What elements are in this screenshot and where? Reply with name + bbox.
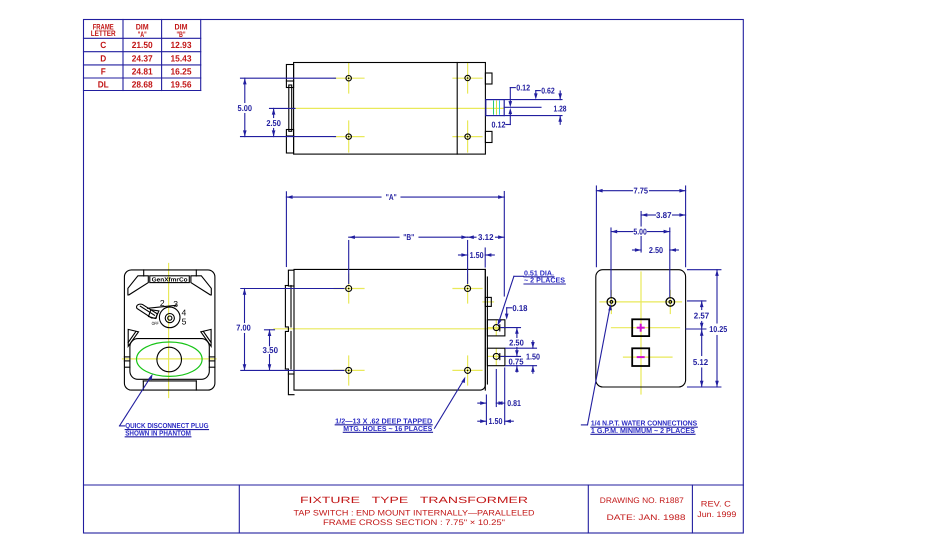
svg-text:24.81: 24.81 (132, 67, 153, 77)
svg-text:10.25: 10.25 (709, 324, 727, 334)
dimension B (front view hole span) (349, 232, 468, 284)
svg-text:5.00: 5.00 (633, 226, 647, 236)
svg-text:1.50: 1.50 (526, 351, 540, 361)
svg-text:DATE: JAN. 1988: DATE: JAN. 1988 (607, 513, 687, 522)
svg-text:SHOWN IN PHANTOM: SHOWN IN PHANTOM (125, 428, 191, 437)
table row D (100, 54, 191, 64)
svg-text:"A": "A" (386, 192, 397, 202)
table row DL (98, 80, 192, 90)
dimension 1.50 (lower tab height) (506, 341, 541, 374)
svg-text:2.50: 2.50 (649, 245, 663, 255)
top view: mounting holes (346, 75, 470, 139)
fixture view: mid-left gusset (128, 329, 138, 346)
top view: protrusion extension lines (504, 100, 562, 116)
top view: right side small tabs (485, 73, 492, 143)
svg-text:"A": "A" (138, 30, 147, 39)
dimension 0.18 (tab offset) (505, 303, 528, 320)
svg-text:2.50: 2.50 (266, 118, 281, 128)
front view: lower terminal tab with hole (487, 348, 505, 366)
fixture view: outer body (124, 270, 214, 390)
dimension 0.12 (top, lower) (492, 108, 513, 129)
note QUICK DISCONNECT PLUG SHOWN IN PHANTOM with leader (120, 374, 209, 438)
top view: left flange (286, 65, 293, 154)
front view: upper terminal tab with hole (487, 320, 505, 336)
title block divider lines (84, 485, 744, 533)
svg-text:0.81: 0.81 (507, 398, 521, 408)
end view: negative terminal (632, 348, 649, 366)
svg-text:3.50: 3.50 (263, 345, 279, 355)
svg-text:REV. C: REV. C (701, 500, 731, 509)
svg-text:3.87: 3.87 (656, 210, 672, 220)
svg-text:19.56: 19.56 (171, 80, 192, 90)
svg-text:0.75: 0.75 (509, 356, 524, 366)
svg-text:12.93: 12.93 (171, 40, 192, 50)
svg-text:"B": "B" (177, 30, 186, 39)
svg-text:3.12: 3.12 (478, 232, 494, 242)
svg-text:MTG. HOLES ~ 16 PLACES: MTG. HOLES ~ 16 PLACES (343, 424, 432, 433)
dimension A (front view overall width) (286, 192, 504, 297)
svg-text:0.62: 0.62 (541, 86, 555, 96)
fixture view: top band dividers (144, 270, 197, 276)
svg-text:LETTER: LETTER (91, 29, 116, 38)
title block text: drawing title (294, 495, 535, 527)
svg-text:1 G.P.M. MINIMUM ~ 2 PLACES: 1 G.P.M. MINIMUM ~ 2 PLACES (591, 426, 695, 435)
dimension 2.50 (top view left) (266, 108, 295, 136)
end view: body outline (596, 270, 686, 387)
svg-text:~ 2 PLACES: ~ 2 PLACES (524, 276, 565, 285)
svg-text:2: 2 (160, 298, 165, 308)
dimension 5.12 (positive terminal to bottom) (693, 329, 709, 387)
table row C (100, 40, 191, 50)
svg-text:OFF: OFF (152, 321, 159, 326)
dimension 1.50 (bottom right) (478, 416, 514, 426)
svg-text:1.28: 1.28 (554, 103, 567, 113)
svg-text:Jun. 1999: Jun. 1999 (697, 510, 737, 519)
dimension 0.81 (bottom right) (478, 368, 521, 425)
svg-text:F: F (101, 67, 106, 77)
svg-text:"B": "B" (403, 232, 414, 242)
fixture view: top-left corner gusset (128, 276, 148, 295)
svg-text:C: C (100, 40, 106, 50)
svg-text:24.37: 24.37 (132, 54, 153, 64)
svg-text:FRAME CROSS SECTION : 7.75" ×: FRAME CROSS SECTION : 7.75" × 10.25" (323, 518, 505, 527)
dimension 0.12 (top, upper) (509, 83, 531, 108)
svg-text:15.43: 15.43 (171, 54, 192, 64)
dimension 7.75 (end view overall width) (596, 186, 685, 267)
fixture view: lower compartment (124, 339, 214, 380)
dimension 5.00 (water hole spacing) (611, 226, 670, 296)
dimension 0.75 (hole to tab bottom) (509, 356, 524, 372)
svg-text:5.12: 5.12 (693, 357, 709, 367)
front view: body outline (294, 269, 485, 390)
front view: yellow centerlines (274, 274, 506, 385)
svg-text:21.50: 21.50 (132, 40, 153, 50)
svg-text:3: 3 (173, 299, 178, 309)
drawing frame border (84, 20, 744, 534)
fixture view: bottom base plate (143, 381, 196, 390)
fixture view: nameplate with logo text (150, 276, 190, 284)
front view: left flange (285, 270, 294, 395)
dimension 5.00 (top view left) (238, 78, 336, 136)
fixture view: plug center circle (157, 347, 182, 372)
dimension 2.50 (terminal tab hole spacing) (501, 328, 524, 357)
svg-text:5: 5 (182, 316, 187, 326)
svg-text:1.50: 1.50 (470, 250, 484, 260)
svg-text:GenXfmrCo: GenXfmrCo (152, 277, 188, 284)
svg-text:TAP SWITCH : END MOUNT INTERNA: TAP SWITCH : END MOUNT INTERNALLY—PARALL… (294, 508, 535, 517)
svg-text:7.75: 7.75 (634, 186, 649, 196)
fixture view: tap switch lever (137, 304, 176, 318)
title block text: drawing number and date (600, 496, 686, 522)
end view: yellow centerlines (600, 272, 682, 394)
top view: terminal protrusion with gasket hatch (486, 100, 504, 116)
dimension 3.87 (center to right edge) (641, 210, 686, 252)
note 1/2-13 X .62 DEEP TAPPED MTG. HOLES ~ 16 PLACES with leader (335, 377, 465, 433)
svg-text:1.50: 1.50 (489, 416, 503, 426)
svg-text:2.50: 2.50 (509, 338, 524, 348)
svg-text:DL: DL (98, 80, 109, 90)
note 1/4 N.P.T. WATER CONNECTIONS 1 G.P.M. MINIMUM ~ 2 PLACES with leader (581, 304, 697, 435)
svg-text:DRAWING NO. R1887: DRAWING NO. R1887 (600, 496, 685, 505)
dimension 1.50 (front view upper right) (459, 248, 495, 267)
svg-text:D: D (100, 54, 106, 64)
dimension 2.57 (hole line to positive terminal) (694, 301, 710, 329)
svg-text:5.00: 5.00 (238, 103, 253, 113)
fixture view: tap switch dial (159, 307, 180, 328)
dimension 3.12 (front view) (468, 232, 505, 242)
frame dimension table grid (84, 20, 201, 91)
dimension 10.25 (end view overall height) (709, 270, 727, 387)
svg-text:0.18: 0.18 (512, 303, 527, 313)
front view: small upper tab on end plate (485, 297, 491, 306)
end view: water connection holes (607, 298, 674, 307)
title block text: revision (697, 500, 737, 520)
dimension 3.50 (centerline to hole row) (263, 330, 279, 371)
top view: body outline (294, 63, 486, 155)
note 0.51 DIA ~ 2 PLACES with leader (498, 269, 566, 326)
table header text (91, 22, 188, 39)
front view: end plate (485, 269, 487, 390)
svg-text:7.00: 7.00 (236, 323, 251, 333)
fixture view: quick disconnect plug shown in phantom (green) (137, 342, 203, 376)
front view: mounting holes (346, 286, 471, 374)
fixture view: tap position numbers (152, 298, 187, 326)
svg-text:16.25: 16.25 (171, 67, 192, 77)
svg-text:FIXTURE TYPE TRANSFORMER: FIXTURE TYPE TRANSFORMER (300, 495, 529, 505)
dimension 1.28 (top right) (554, 91, 567, 124)
fixture view: top-right corner gusset (191, 276, 211, 295)
fixture view: yellow centerlines (123, 264, 217, 398)
table row F (101, 67, 192, 77)
dimension 2.50 (center to hole) (633, 245, 679, 255)
svg-text:28.68: 28.68 (132, 80, 153, 90)
svg-text:0.12: 0.12 (492, 119, 506, 129)
fixture view: mid-right gusset (201, 329, 211, 346)
svg-text:0.12: 0.12 (516, 83, 530, 93)
end view: right extension lines (686, 270, 721, 387)
svg-text:2.57: 2.57 (694, 311, 710, 321)
top view: yellow centerlines (291, 63, 504, 152)
end view: positive terminal (632, 319, 649, 336)
dimension 0.62 (top right) (534, 86, 555, 100)
dimension 7.00 (hole row spacing) (236, 289, 344, 371)
